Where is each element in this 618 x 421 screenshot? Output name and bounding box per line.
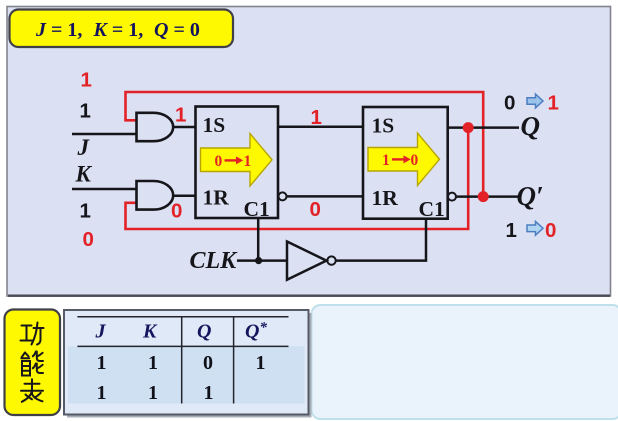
svg-text:1: 1 — [97, 352, 107, 374]
svg-text:K: K — [142, 321, 158, 343]
svg-text:1: 1 — [256, 352, 266, 374]
svg-text:J: J — [95, 321, 107, 343]
svg-text:0: 0 — [545, 219, 556, 242]
svg-text:J: J — [77, 135, 91, 160]
svg-text:1: 1 — [311, 106, 322, 129]
svg-text:0: 0 — [83, 228, 94, 251]
svg-text:1: 1 — [548, 92, 559, 115]
svg-text:Q = 0: Q = 0 — [154, 19, 200, 41]
svg-text:1: 1 — [148, 382, 158, 404]
svg-text:Q: Q — [197, 321, 211, 343]
svg-text:Q′: Q′ — [517, 181, 544, 211]
svg-text:1: 1 — [204, 382, 214, 404]
svg-text:0: 0 — [215, 153, 223, 170]
svg-text:1R: 1R — [372, 186, 399, 210]
svg-text:0: 0 — [310, 198, 321, 221]
svg-text:K: K — [75, 162, 93, 187]
svg-text:1: 1 — [506, 219, 517, 242]
svg-text:0: 0 — [411, 152, 419, 169]
svg-text:1: 1 — [244, 153, 252, 170]
svg-text:C1: C1 — [419, 197, 445, 221]
svg-text:J = 1,: J = 1, — [35, 19, 82, 41]
svg-text:1: 1 — [97, 382, 107, 404]
svg-text:Q: Q — [521, 111, 541, 141]
svg-text:1S: 1S — [203, 113, 226, 137]
svg-text:1R: 1R — [203, 186, 230, 210]
svg-text:0: 0 — [171, 200, 182, 223]
svg-text:0: 0 — [504, 92, 515, 115]
svg-text:C1: C1 — [244, 197, 270, 221]
svg-text:CLK: CLK — [190, 248, 239, 274]
svg-text:0: 0 — [203, 352, 213, 374]
svg-text:1: 1 — [80, 100, 91, 123]
svg-text:1: 1 — [382, 152, 390, 169]
svg-text:1S: 1S — [372, 114, 395, 138]
svg-text:1: 1 — [148, 352, 158, 374]
svg-text:1: 1 — [81, 69, 92, 92]
svg-text:1: 1 — [175, 104, 186, 127]
svg-text:K = 1,: K = 1, — [93, 19, 144, 41]
svg-text:1: 1 — [80, 200, 91, 223]
